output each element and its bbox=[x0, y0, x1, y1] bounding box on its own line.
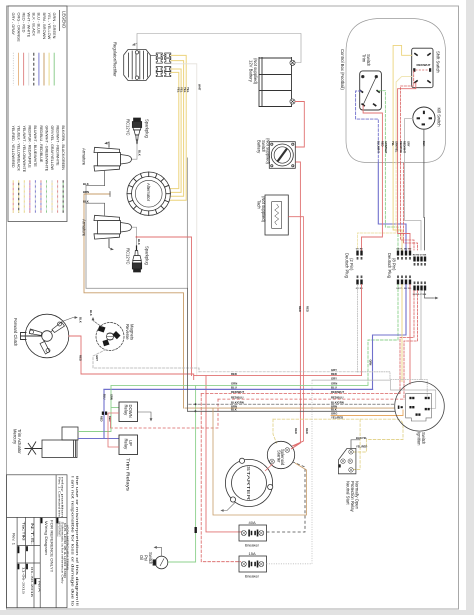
red wires into solenoid bbox=[291, 441, 304, 449]
svg-text:RED: RED bbox=[100, 416, 104, 422]
svg-text:GRY: GRY bbox=[331, 376, 337, 380]
armature A2 to junction black wire bbox=[86, 203, 105, 215]
shift switch red dashed wire bbox=[401, 71, 414, 163]
title block bbox=[7, 475, 68, 608]
below plug: RED/WHT to bus bbox=[404, 291, 418, 400]
engine red lead to harness bbox=[137, 237, 192, 376]
svg-text:RED: RED bbox=[306, 306, 310, 312]
svg-text:RED: RED bbox=[78, 355, 82, 361]
green into relay down bbox=[111, 407, 119, 409]
svg-text:RED: RED bbox=[108, 416, 112, 422]
starter motor bbox=[225, 458, 272, 506]
bus BRN bbox=[185, 407, 394, 409]
svg-text:Control Box (Footbail): Control Box (Footbail) bbox=[340, 49, 345, 90]
bus RED/BLU bbox=[218, 398, 404, 400]
svg-text:RD: RD bbox=[408, 249, 412, 251]
svg-text:GRN - GREEN: GRN - GREEN bbox=[52, 13, 57, 39]
svg-text:BU: BU bbox=[404, 249, 408, 251]
tiny headers bbox=[18, 518, 59, 585]
black jumper neutral switch bbox=[351, 440, 360, 450]
svg-text:RED: RED bbox=[294, 428, 298, 434]
kill switch bbox=[413, 107, 435, 129]
bus ORG bbox=[331, 410, 403, 416]
svg-text:BK: BK bbox=[423, 294, 427, 296]
svg-text:01-30-2016: 01-30-2016 bbox=[30, 567, 34, 598]
reverse magnets bbox=[96, 323, 124, 351]
forward clutch bbox=[21, 314, 69, 358]
svg-text:15A: 15A bbox=[249, 551, 256, 556]
kill switch black wire bbox=[423, 129, 425, 163]
40A breaker bbox=[239, 525, 267, 541]
wire junction to sparkplug P2 bbox=[136, 237, 138, 246]
wire GRY/YEL to 2pin bbox=[358, 163, 397, 250]
svg-text:GRN: GRN bbox=[369, 360, 373, 366]
svg-text:BLK: BLK bbox=[137, 239, 141, 245]
yellow stator wires W1-W4 bbox=[170, 55, 187, 200]
brown wire to solenoid bbox=[213, 408, 307, 515]
bus YEL/RED bbox=[273, 419, 403, 452]
svg-text:WHT: WHT bbox=[198, 84, 202, 91]
svg-text:RD: RD bbox=[360, 249, 364, 251]
wire RED-b to plug bbox=[398, 163, 410, 250]
RED cable labels bbox=[294, 306, 310, 434]
svg-text:YEL/RED: YEL/RED bbox=[331, 415, 343, 419]
ground arrow clutch bbox=[62, 318, 75, 322]
svg-text:Deutsch Plug: Deutsch Plug bbox=[387, 253, 392, 279]
pin micro-labels bbox=[356, 249, 427, 297]
shift switch red wire bbox=[398, 83, 416, 163]
svg-text:BLK/YEL: BLK/YEL bbox=[356, 436, 368, 440]
svg-text:Normally Open: Normally Open bbox=[355, 481, 360, 510]
svg-text:11-06-2015: 11-06-2015 bbox=[22, 567, 26, 594]
trim switch blue dashed wire bbox=[356, 91, 379, 163]
below plug: BLU bbox=[373, 285, 407, 390]
ground arrow armature A1 bbox=[107, 142, 110, 144]
alternator M1 bbox=[127, 172, 170, 215]
15A breaker bbox=[239, 556, 267, 572]
svg-text:RED/WHT: RED/WHT bbox=[231, 390, 244, 394]
relay DOWN box bbox=[119, 402, 138, 422]
deutsch plug 8pin row2 bbox=[413, 257, 426, 291]
starter ground bbox=[224, 503, 236, 511]
svg-text:RED/BLU: RED/BLU bbox=[231, 395, 243, 399]
svg-text:N/A: N/A bbox=[37, 581, 41, 592]
svg-text:GRN/WHT: GRN/WHT bbox=[384, 141, 388, 154]
svg-text:RED: RED bbox=[298, 306, 302, 312]
svg-text:BRN - BROWN: BRN - BROWN bbox=[42, 13, 47, 40]
svg-text:Shift Switch: Shift Switch bbox=[436, 51, 441, 74]
page margin strips bbox=[466, 0, 474, 615]
red wire clutch to bus bbox=[69, 336, 194, 380]
svg-text:Relay: Relay bbox=[124, 439, 129, 451]
svg-text:GRY/YEL: GRY/YEL bbox=[395, 141, 399, 153]
svg-text:BRN: BRN bbox=[83, 190, 89, 194]
bus RED/WHT bbox=[201, 393, 400, 395]
below plug: kill gray bbox=[420, 291, 422, 380]
svg-text:GRY/YEL - GRAY/YELLOW: GRY/YEL - GRAY/YELLOW bbox=[50, 126, 54, 171]
svg-text:Breaker: Breaker bbox=[245, 574, 260, 579]
GRN BLU labels bbox=[100, 394, 114, 422]
deutsch plug 8pin row1 bbox=[397, 251, 411, 285]
svg-text:Reverse: Reverse bbox=[125, 324, 130, 340]
svg-text:12V Battery: 12V Battery bbox=[249, 60, 254, 83]
relay UP box bbox=[119, 435, 138, 455]
svg-text:UP: UP bbox=[128, 440, 133, 446]
svg-text:RED - RED: RED - RED bbox=[21, 13, 26, 33]
trim switch green dashed wire bbox=[378, 91, 385, 163]
starter solenoid bbox=[267, 441, 294, 468]
red cable battery to switch bbox=[295, 102, 304, 148]
sparkplug P1 RC12YC bbox=[132, 118, 141, 144]
svg-text:BLU - BLUE: BLU - BLUE bbox=[37, 13, 42, 35]
wire BLU to plug bbox=[378, 163, 406, 250]
control box capsule bbox=[346, 19, 446, 163]
ignition switch bbox=[395, 382, 445, 432]
svg-text:GRY: GRY bbox=[406, 141, 410, 147]
svg-text:Forward Clutch: Forward Clutch bbox=[13, 318, 18, 347]
svg-text:RC12YC: RC12YC bbox=[126, 119, 131, 136]
svg-text:GRN/WHT - GREEN/WHITE: GRN/WHT - GREEN/WHITE bbox=[44, 126, 48, 172]
battery terminal bolts bbox=[290, 60, 295, 104]
wires below 2pin: red bbox=[361, 285, 363, 376]
svg-text:Psi: Psi bbox=[143, 555, 148, 561]
ground arrow armature A2 bbox=[109, 248, 112, 250]
red jumpers between relays bbox=[108, 413, 119, 447]
svg-text:Sparkplug: Sparkplug bbox=[145, 246, 150, 266]
svg-text:FOR REFERENCE ONLY!!: FOR REFERENCE ONLY!! bbox=[50, 520, 54, 572]
svg-text:STARTER: STARTER bbox=[246, 466, 251, 500]
wire RED/PUR to plug bbox=[401, 163, 414, 250]
svg-text:Magnets: Magnets bbox=[130, 324, 135, 340]
svg-text:YEL: YEL bbox=[186, 87, 190, 93]
svg-text:YEL - YELLOW: YEL - YELLOW bbox=[47, 13, 52, 40]
green wire actuator bbox=[78, 385, 111, 431]
svg-text:RED: RED bbox=[305, 428, 309, 434]
svg-text:(8 Pin): (8 Pin) bbox=[392, 258, 397, 271]
sparkplug P2 RC12YC inverted bbox=[132, 246, 141, 272]
svg-text:Switch: Switch bbox=[261, 140, 266, 153]
red tach lead bbox=[288, 217, 303, 446]
svg-text:40A: 40A bbox=[249, 520, 256, 525]
junction pads bbox=[102, 412, 104, 415]
wire RED/WHT dashed to plug bbox=[404, 163, 418, 250]
deutsch plug 2pin bbox=[356, 251, 362, 285]
neutral start switch bbox=[338, 448, 356, 473]
svg-text:(Not supplied): (Not supplied) bbox=[266, 138, 271, 165]
svg-text:Armature: Armature bbox=[82, 219, 87, 237]
wire armature2 to junction node bbox=[132, 227, 137, 237]
svg-text:Regulator/Rectifier: Regulator/Rectifier bbox=[113, 42, 118, 77]
svg-text:Deutsch Plug: Deutsch Plug bbox=[345, 253, 350, 279]
svg-text:RED/WHT: RED/WHT bbox=[403, 141, 407, 154]
svg-text:BLK: BLK bbox=[89, 310, 93, 316]
svg-text:Trim Actuator: Trim Actuator bbox=[17, 429, 22, 454]
wire kill GRY to plug bbox=[405, 163, 422, 250]
svg-text:WHT - WHITE: WHT - WHITE bbox=[27, 13, 32, 38]
svg-text:BLK: BLK bbox=[79, 317, 83, 323]
mercury trim actuator bbox=[25, 427, 79, 458]
bullet connectors on regulator leads bbox=[150, 53, 171, 77]
legend box bbox=[8, 6, 67, 222]
svg-text:BLK: BLK bbox=[83, 182, 89, 186]
ground arrow at regulator bbox=[134, 43, 137, 50]
svg-text:RED/BLU - RED/BLUE: RED/BLU - RED/BLUE bbox=[39, 126, 43, 163]
svg-text:Oil: Oil bbox=[139, 555, 144, 560]
bus labels left column bbox=[231, 372, 244, 412]
svg-text:(2 Pin): (2 Pin) bbox=[349, 258, 354, 271]
gray dotted 15A riser bbox=[267, 380, 313, 564]
svg-text:RC12YC: RC12YC bbox=[126, 248, 131, 265]
svg-text:Rev. 1: Rev. 1 bbox=[12, 533, 16, 545]
svg-text:RED/WHT - RED/WHITE: RED/WHT - RED/WHITE bbox=[55, 126, 59, 167]
svg-text:Rev. 1: Corrected trim: Rev. 1: Corrected trim bbox=[57, 477, 60, 517]
svg-text:Trim: Trim bbox=[362, 54, 367, 63]
svg-text:RED: RED bbox=[331, 372, 337, 376]
svg-text:BLU/WHT - BLUE/WHITE: BLU/WHT - BLUE/WHITE bbox=[33, 126, 37, 168]
capsule exit wire labels bbox=[376, 141, 426, 154]
battery switch S1 bbox=[269, 142, 295, 169]
gray wire magnets to harness bbox=[93, 350, 199, 372]
YEL/RED drop to solenoid bbox=[273, 419, 277, 443]
svg-text:RED/PUR: RED/PUR bbox=[399, 141, 403, 153]
svg-text:Alternator: Alternator bbox=[146, 183, 151, 202]
svg-text:Switch: Switch bbox=[366, 54, 371, 67]
below plug: RED-b to ignition bbox=[409, 285, 411, 385]
svg-text:Protection Relay: Protection Relay bbox=[350, 481, 355, 513]
blue wire actuator bbox=[78, 438, 119, 440]
svg-text:GRY - GRAY: GRY - GRAY bbox=[11, 13, 16, 36]
engine block boundary bbox=[86, 158, 187, 288]
armature A1 bbox=[94, 142, 132, 171]
svg-text:Sparkplug: Sparkplug bbox=[145, 119, 150, 139]
bus BLU bbox=[104, 388, 373, 390]
svg-text:BLU: BLU bbox=[102, 394, 106, 399]
ground arrow kill bbox=[433, 297, 436, 299]
bus GRY-B (magnets) bbox=[199, 371, 358, 373]
YEL wire labels bbox=[177, 84, 202, 93]
black dashed 40A to solenoid bbox=[267, 462, 306, 532]
relay ground bbox=[138, 412, 152, 419]
bus RED bbox=[194, 375, 362, 377]
svg-text:(Not supplied): (Not supplied) bbox=[261, 196, 266, 223]
svg-text:BK: BK bbox=[423, 255, 427, 257]
svg-text:Trim Relays: Trim Relays bbox=[126, 458, 131, 491]
battery ground strap wire bbox=[137, 34, 301, 63]
wire kill BLK to plug bbox=[423, 163, 426, 250]
svg-text:Armature: Armature bbox=[82, 148, 87, 166]
svg-text:BLK: BLK bbox=[138, 150, 142, 156]
svg-text:YEL/BLK - YELLOW/BLACK: YEL/BLK - YELLOW/BLACK bbox=[17, 126, 21, 172]
svg-text:Breaker: Breaker bbox=[245, 543, 260, 548]
bus BLK/GRN bbox=[189, 403, 395, 405]
svg-text:RED/WHT: RED/WHT bbox=[331, 390, 344, 394]
svg-text:RED: RED bbox=[231, 372, 237, 376]
svg-text:Wiring Diagram: Wiring Diagram bbox=[44, 521, 48, 555]
svg-text:DOWN: DOWN bbox=[128, 405, 133, 418]
tach box bbox=[265, 195, 288, 235]
ground arrow magnets bbox=[93, 321, 102, 328]
svg-text:BLK/GRN - BLACK/GREEN: BLK/GRN - BLACK/GREEN bbox=[61, 126, 65, 171]
12V battery B1 bbox=[259, 57, 292, 107]
below plug: GRN/WHT bbox=[368, 285, 398, 386]
svg-text:Ignition: Ignition bbox=[417, 432, 422, 446]
svg-text:(COL MERCURY TRIM): (COL MERCURY TRIM) bbox=[66, 525, 70, 570]
wire YEL to plug bbox=[393, 163, 402, 250]
svg-text:LEGEND: LEGEND bbox=[62, 11, 67, 28]
svg-text:Switch: Switch bbox=[421, 432, 426, 445]
wire trim RED to 2pin bbox=[362, 163, 383, 250]
svg-text:I am not responsible for loss: I am not responsible for loss or damage … bbox=[71, 476, 75, 606]
svg-text:BLK: BLK bbox=[231, 408, 237, 412]
bus labels right column bbox=[331, 368, 344, 419]
svg-text:Neutral Start: Neutral Start bbox=[346, 481, 351, 505]
svg-text:BLK: BLK bbox=[422, 141, 426, 146]
red link solenoid to starter bbox=[265, 464, 273, 471]
svg-text:ORG - ORANGE: ORG - ORANGE bbox=[16, 13, 21, 43]
below plug: kill black to ground bbox=[425, 291, 434, 299]
svg-text:BLK - BLACK: BLK - BLACK bbox=[32, 13, 37, 37]
svg-text:relay position: relay position bbox=[60, 477, 63, 519]
svg-text:(Not supplied): (Not supplied) bbox=[253, 58, 258, 85]
svg-text:Relay: Relay bbox=[124, 405, 129, 417]
junction dots on black buses bbox=[195, 403, 197, 405]
kill switch gray wire bbox=[405, 119, 413, 163]
brown stator lead bbox=[84, 194, 184, 408]
bus BLK bbox=[187, 288, 395, 411]
svg-text:BLK: BLK bbox=[83, 199, 89, 203]
wires below 2pin: gray dotted bbox=[357, 285, 359, 372]
bus GRN bbox=[111, 384, 368, 386]
below plug: RED/PUR to bus bbox=[400, 291, 414, 394]
svg-text:GRY: GRY bbox=[95, 355, 99, 361]
bus GRY-A (tach/acc) bbox=[358, 372, 428, 396]
below plug: YEL bbox=[401, 285, 403, 382]
svg-text:Tach: Tach bbox=[257, 200, 262, 210]
armature A2 bbox=[94, 215, 132, 247]
trim switch red wire bbox=[363, 106, 382, 164]
svg-text:YEL/RED: YEL/RED bbox=[356, 445, 367, 449]
svg-text:Solenoid: Solenoid bbox=[280, 449, 285, 466]
svg-text:YEL/WHT - YELLOW/WHITE: YEL/WHT - YELLOW/WHITE bbox=[22, 126, 26, 173]
shift switch yellow wire bbox=[393, 45, 412, 163]
shift switch bbox=[412, 48, 433, 87]
svg-text:GRN: GRN bbox=[109, 394, 113, 400]
svg-text:RED/PUR - RED/PURPLE: RED/PUR - RED/PURPLE bbox=[28, 126, 32, 169]
svg-text:the use or misinterpretation o: the use or misinterpretation of this dia… bbox=[75, 476, 79, 606]
wire plug1 to armature1 bbox=[132, 144, 138, 160]
svg-text:Battery: Battery bbox=[257, 140, 262, 154]
shift switch pale yellow wire bbox=[396, 77, 412, 163]
trim switch bbox=[359, 71, 381, 110]
svg-text:RED/WHT: RED/WHT bbox=[417, 63, 431, 67]
svg-text:YEL/RED - YELLOW/RED: YEL/RED - YELLOW/RED bbox=[11, 126, 15, 168]
svg-text:RED/BLU: RED/BLU bbox=[331, 395, 343, 399]
YEL/RED drop to neutral switch bbox=[352, 419, 360, 469]
svg-text:BLU/WHT: BLU/WHT bbox=[376, 141, 380, 153]
white stator wire bbox=[171, 64, 197, 376]
wire GRN/WHT to plug bbox=[385, 163, 398, 250]
armature A1 to junction black wires bbox=[86, 171, 105, 186]
svg-text:Switch: Switch bbox=[148, 552, 153, 565]
regulator/rectifier U1 bbox=[124, 50, 151, 81]
GRN label on green riser bbox=[195, 527, 197, 533]
svg-text:TacTiki: TacTiki bbox=[22, 522, 26, 541]
svg-text:N.T.S.: N.T.S. bbox=[30, 523, 34, 545]
oil psi switch bbox=[153, 546, 168, 569]
svg-text:Kill Switch: Kill Switch bbox=[437, 108, 442, 128]
red cable battery switch to solenoid bbox=[291, 162, 300, 449]
svg-text:Mercury: Mercury bbox=[13, 429, 18, 445]
